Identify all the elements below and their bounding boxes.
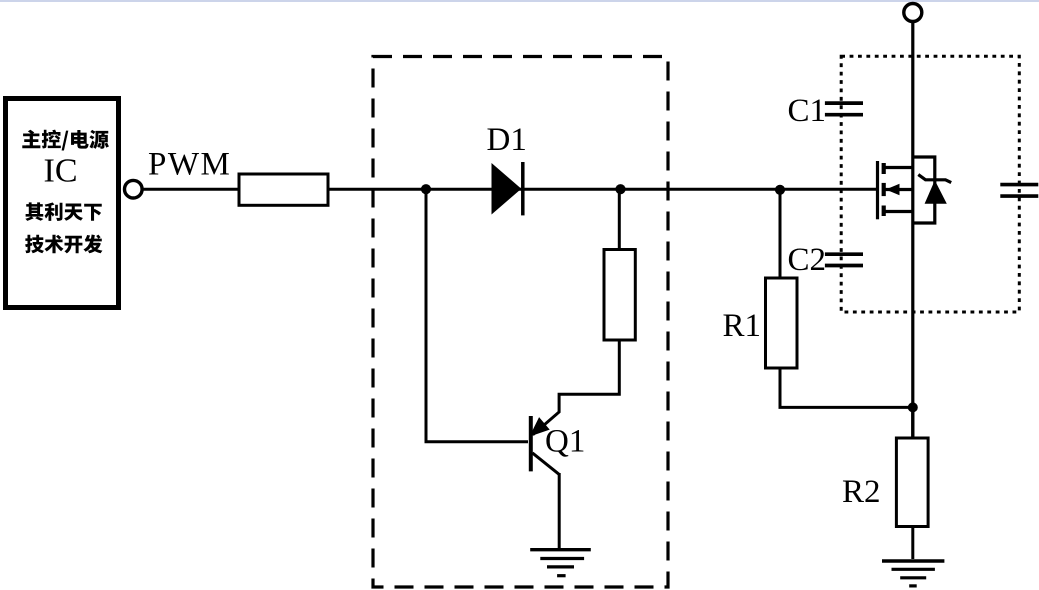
IC U1 main-control / power IC box — [6, 99, 119, 308]
mosfet body diode branch — [913, 157, 935, 223]
svg-text:Q1: Q1 — [545, 423, 585, 459]
capacitor C1 — [825, 103, 863, 115]
resistor base pull (unlabeled, in dashed box) — [604, 250, 635, 341]
svg-text:C1: C1 — [788, 93, 827, 129]
resistor R1 — [766, 278, 798, 368]
svg-text:R2: R2 — [842, 474, 881, 510]
label 主控/电源 — [22, 130, 109, 151]
terminal PWM output of IC — [125, 180, 143, 198]
ground (R2 bottom) — [882, 561, 944, 586]
capacitor C2 — [825, 254, 863, 265]
dotted module box (MOSFET assembly) — [841, 56, 1019, 312]
resistor series gate resistor (unlabeled) — [239, 174, 328, 205]
wire node B down to resistor — [618, 189, 621, 249]
wire R2 bottom to ground — [911, 527, 914, 560]
resistor R2 — [896, 438, 928, 527]
label 技术开发 — [25, 235, 102, 254]
node A (junction after series resistor) — [421, 184, 431, 194]
wire node D down to R2 — [911, 407, 914, 438]
svg-text:C2: C2 — [788, 242, 827, 278]
capacitor output (unlabeled, right) — [1000, 185, 1038, 197]
node B (D1 cathode junction) — [615, 184, 625, 194]
diode D1 — [492, 162, 523, 215]
svg-text:PWM: PWM — [148, 147, 231, 183]
mosfet (N-channel with body diode) — [878, 157, 952, 223]
dashed module box (drive circuit) — [373, 57, 668, 588]
ground (Q1 collector) — [530, 550, 591, 576]
wire node A to Q1 base — [426, 189, 528, 442]
wire R1 bottom to node D — [780, 368, 913, 407]
svg-text:D1: D1 — [487, 122, 527, 158]
node D (R1/R2 divider junction) — [908, 402, 918, 412]
node C (gate / divider junction) — [775, 185, 785, 195]
label 其利天下 — [25, 202, 101, 220]
wire resistor bottom to Q1 emitter — [533, 340, 620, 435]
wire PWM net (terminal to gate) — [142, 188, 877, 191]
svg-text:R1: R1 — [723, 308, 762, 344]
svg-text:IC: IC — [44, 153, 78, 190]
wire node C down to R1 — [779, 190, 782, 278]
wire main drain/source vertical — [911, 22, 914, 439]
transistor Q1 (PNP) — [531, 416, 559, 550]
terminal VIN (top) — [904, 4, 922, 22]
